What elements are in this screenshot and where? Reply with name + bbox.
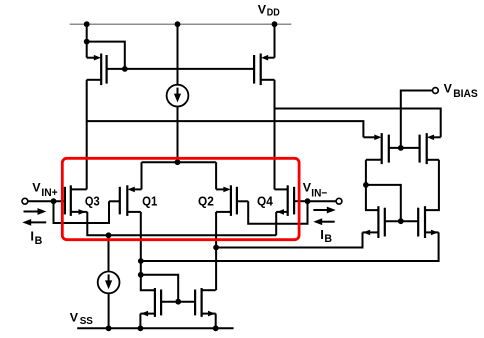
wire (M5 source to bus A) <box>216 232 362 247</box>
label VIN- <box>303 181 328 200</box>
wire <box>366 185 379 210</box>
svg-text:V: V <box>32 181 41 195</box>
node VIN+ junction <box>51 198 57 204</box>
IB arrow right (left side) <box>24 208 47 215</box>
wire <box>87 42 125 69</box>
transistor Q1 <box>109 185 142 216</box>
transistor Q3 <box>65 185 87 216</box>
transistor Q4 <box>275 185 308 216</box>
terminal VBIAS <box>433 88 439 94</box>
wire (cascode feed right, y=108.5) <box>275 109 441 138</box>
svg-text:V: V <box>258 3 267 17</box>
VSS rail <box>77 327 233 329</box>
transistor M4 (upper cascode right) <box>420 133 441 164</box>
wire VIN+ to Q3 gate <box>28 200 65 202</box>
wire (Q1/Q2 source bus) <box>142 161 217 163</box>
transistor M5 (lower cascode left) <box>363 206 385 238</box>
svg-text:Q1: Q1 <box>142 194 157 209</box>
label Q2 <box>198 194 214 209</box>
svg-text:SS: SS <box>80 316 94 327</box>
IB arrow left (right side) <box>313 218 334 225</box>
label VSS <box>70 310 93 327</box>
node B junction <box>138 258 144 264</box>
wire <box>86 24 88 41</box>
label VIN+ <box>32 181 57 200</box>
red highlight box <box>62 158 299 239</box>
terminal VIN+ <box>22 198 28 204</box>
wire (gate bus M1-M2) <box>125 68 254 70</box>
transistor M6 (lower cascode right) <box>418 206 438 238</box>
transistor M3 (upper cascode left) <box>363 133 388 164</box>
node tail bottom junction <box>106 232 112 238</box>
current source I2 (bottom tail) <box>98 235 120 328</box>
wire (Q4 source down) <box>275 212 277 235</box>
node mirror gates <box>175 299 181 305</box>
wire <box>86 42 88 58</box>
node VBIAS wire <box>401 91 433 148</box>
wire (M7-M8 gates) <box>161 301 195 303</box>
wire (cascode feed left, y=121) <box>87 121 364 137</box>
wire (M3 drain down) <box>365 160 367 185</box>
wire VIN- to Q4 gate <box>308 200 337 202</box>
wire (Q1 source up) <box>141 162 143 189</box>
svg-text:V: V <box>444 82 453 96</box>
label VBIAS <box>444 82 478 101</box>
node A <box>363 182 369 188</box>
wire (M1 drain down to Q3) <box>86 80 88 190</box>
transistor Q2 <box>216 185 248 216</box>
wire VIN- to Q2 gate <box>248 201 307 224</box>
wire (Q2 source up) <box>215 162 217 189</box>
transistor M8 (mirror right) <box>195 288 216 328</box>
node A junction <box>213 245 219 251</box>
node mirror junction <box>138 272 144 278</box>
wire (mirror left drain) <box>141 275 155 290</box>
transistor M1 (top-left clamp) <box>87 54 125 86</box>
wire (M5-M6 gates) <box>385 220 418 222</box>
wire (to mirror gate) <box>141 275 178 302</box>
node M1 loop junctions <box>84 39 128 72</box>
node VDD rail junctions <box>84 21 278 27</box>
wire (M2 drain down to Q4) <box>274 80 276 190</box>
wire (M6 source to bus B) <box>141 232 439 261</box>
node gate junction <box>398 218 404 224</box>
node VIN- junction <box>305 198 311 204</box>
svg-text:I: I <box>30 229 34 244</box>
node tail junction <box>175 159 181 165</box>
svg-text:IN+: IN+ <box>41 187 57 199</box>
transistor M7 (mirror left) <box>140 288 161 328</box>
wire (Q1 drain down) <box>140 212 142 275</box>
label VDD <box>258 3 280 19</box>
wire VIN+ to Q1 gate <box>54 201 110 223</box>
node rail junctions <box>106 325 219 331</box>
wire <box>366 185 401 221</box>
svg-text:Q4: Q4 <box>257 194 273 209</box>
IB arrow left (left side) <box>22 219 46 226</box>
IB arrow right (right side) <box>313 207 335 214</box>
wire (Q2 drain down) <box>215 212 217 290</box>
VDD rail <box>70 23 292 25</box>
wire (Q3 source down) <box>87 212 276 235</box>
wire (M3-M4 gates) <box>389 147 420 149</box>
current source I1 (top tail) <box>167 24 189 162</box>
svg-text:I: I <box>320 227 324 242</box>
terminal VIN- <box>336 198 342 204</box>
wire (M4 drain down) <box>425 160 439 210</box>
transistor M2 (top-right clamp) <box>254 54 274 86</box>
svg-text:V: V <box>70 310 79 324</box>
label IB right <box>320 227 332 245</box>
svg-text:Q2: Q2 <box>198 194 214 209</box>
node gate junction <box>398 145 404 151</box>
svg-text:DD: DD <box>267 7 280 18</box>
wire (M2 source to rail) <box>274 24 276 58</box>
svg-text:B: B <box>324 233 332 245</box>
svg-text:BIAS: BIAS <box>453 88 478 100</box>
label IB left <box>30 229 42 247</box>
svg-text:Q3: Q3 <box>85 194 100 209</box>
label Q4 <box>257 194 273 209</box>
label Q3 <box>85 194 100 209</box>
svg-text:B: B <box>35 235 43 247</box>
svg-text:IN−: IN− <box>311 187 327 199</box>
label Q1 <box>142 194 157 209</box>
